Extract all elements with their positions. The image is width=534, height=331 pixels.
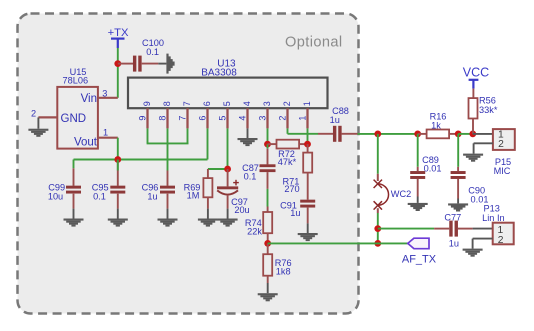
capacitor C95 [92, 160, 126, 209]
resistor R16 1k [418, 112, 459, 139]
svg-text:1u: 1u [290, 208, 300, 218]
resistor R69 1M [184, 169, 213, 209]
ground (U15 pin 2) [28, 117, 48, 136]
ground (C96) [158, 209, 178, 227]
svg-text:2: 2 [278, 116, 288, 121]
P15 pin 1 wire [473, 133, 493, 135]
ground (C90) [448, 199, 468, 212]
junction at C90 [455, 131, 462, 138]
wire [288, 133, 319, 135]
capacitor C88 1u [318, 106, 358, 142]
svg-text:2: 2 [498, 235, 504, 246]
ground (C95) [108, 209, 128, 227]
ground (P13) [463, 249, 483, 257]
P13 pin 2 wire [473, 239, 493, 249]
junction at WC2 bottom [374, 225, 381, 232]
svg-text:6: 6 [198, 116, 208, 121]
connector P15 MIC [493, 129, 515, 176]
wire [267, 128, 269, 144]
svg-text:3: 3 [258, 116, 268, 121]
wire [147, 142, 189, 144]
resistor R56 33k* [469, 89, 498, 134]
svg-text:5: 5 [222, 101, 232, 106]
wire [267, 189, 269, 207]
svg-text:4: 4 [242, 101, 252, 106]
svg-text:AF_TX: AF_TX [402, 254, 437, 266]
op-amp U13 BA3308 [128, 59, 328, 109]
svg-text:9: 9 [142, 101, 152, 106]
ground (C99) [64, 209, 84, 227]
capacitor C87 0.1 [242, 149, 275, 189]
capacitor C96 [142, 171, 175, 209]
svg-text:WC2: WC2 [391, 189, 411, 199]
wire [207, 128, 209, 159]
wire [167, 128, 169, 170]
svg-text:8: 8 [158, 116, 168, 121]
svg-text:VCC: VCC [463, 65, 489, 79]
svg-text:1u: 1u [330, 115, 340, 125]
svg-text:GND: GND [61, 113, 87, 125]
svg-text:33k*: 33k* [479, 105, 498, 115]
U13 pin numbers [138, 101, 312, 120]
svg-text:1: 1 [302, 101, 312, 106]
capacitor C100 [118, 38, 164, 71]
svg-text:7: 7 [178, 116, 188, 121]
Optional label [285, 35, 343, 51]
junction at C89 [414, 131, 421, 138]
svg-text:22k: 22k [247, 227, 262, 237]
svg-text:4: 4 [238, 116, 248, 121]
capacitor C77 1u [434, 212, 473, 248]
wire [267, 144, 269, 149]
wire [208, 168, 228, 170]
svg-text:8: 8 [162, 101, 172, 106]
svg-text:5: 5 [218, 116, 228, 121]
svg-text:BA3308: BA3308 [201, 68, 237, 79]
svg-text:1: 1 [298, 116, 308, 121]
ground (R69) [198, 209, 218, 227]
wire [117, 48, 119, 98]
U15 pin 1 [98, 127, 118, 137]
wire [117, 138, 119, 160]
svg-text:Vout: Vout [74, 137, 98, 149]
ground (C91) [298, 223, 318, 241]
wire [473, 228, 493, 230]
U13 pins 9-1 stubs [148, 108, 308, 128]
wire [187, 128, 189, 143]
junction at R72 right [304, 141, 311, 148]
wire [74, 159, 208, 161]
P15 pin 2 wire [474, 143, 493, 153]
junction at bus [114, 156, 121, 163]
regulator U15 78L06 [57, 67, 98, 149]
svg-text:MIC: MIC [494, 166, 511, 176]
resistor R71 270 [282, 144, 312, 200]
svg-text:1: 1 [103, 127, 108, 137]
ground (C100) [158, 54, 174, 74]
svg-text:1M: 1M [187, 191, 200, 201]
junction at R56 [469, 131, 476, 138]
junction at AF_TX row [374, 240, 381, 247]
power symbol +TX [108, 27, 129, 48]
wire [268, 242, 408, 244]
U15 pin 2 [31, 109, 57, 119]
ground (U13 pin 4) [238, 128, 258, 146]
connector P13 Lin In [482, 204, 514, 246]
svg-text:Optional: Optional [285, 35, 343, 51]
svg-text:0.01: 0.01 [471, 195, 489, 205]
wire [458, 133, 473, 135]
svg-text:7: 7 [182, 101, 192, 106]
optional region box [18, 14, 359, 314]
svg-text:1u: 1u [147, 192, 157, 202]
svg-text:C77: C77 [444, 212, 461, 222]
wire [147, 128, 149, 143]
wire [287, 128, 289, 133]
junction at +TX node [114, 60, 121, 67]
capacitor C91 1u [280, 200, 315, 224]
svg-text:20u: 20u [234, 205, 249, 215]
svg-text:0.01: 0.01 [424, 164, 442, 174]
svg-text:1k8: 1k8 [276, 267, 291, 277]
svg-text:2: 2 [282, 101, 292, 106]
capacitor C89 0.01 [410, 134, 441, 197]
svg-text:Lin In: Lin In [482, 213, 504, 223]
wire [227, 128, 229, 169]
resistor R72 47k* [268, 140, 308, 167]
U15 pin 3 [98, 89, 118, 99]
svg-text:Vin: Vin [81, 93, 97, 105]
wire-connection WC2 [374, 174, 412, 213]
junction at WC2 top [374, 131, 381, 138]
svg-text:6: 6 [202, 101, 212, 106]
wire [73, 160, 75, 169]
svg-text:+TX: +TX [108, 27, 129, 39]
capacitor C97 20u (polarized) [217, 169, 250, 215]
power symbol VCC [463, 65, 489, 88]
svg-text:9: 9 [138, 116, 148, 121]
label AF_TX [402, 238, 437, 265]
wire [358, 133, 418, 135]
svg-text:10u: 10u [48, 192, 63, 202]
svg-text:1k: 1k [431, 121, 441, 131]
junction at pin5 node [224, 166, 231, 173]
wire [377, 213, 379, 244]
wire [307, 128, 309, 144]
svg-text:3: 3 [102, 89, 107, 99]
ground (C97) [218, 209, 238, 227]
svg-text:270: 270 [284, 184, 299, 194]
junction at R74 bottom [264, 240, 271, 247]
resistor R76 1k8 [263, 243, 291, 283]
svg-text:R56: R56 [479, 96, 496, 106]
svg-text:P13: P13 [484, 204, 500, 214]
wire [378, 228, 434, 230]
resistor R74 22k [245, 207, 272, 244]
svg-text:1u: 1u [449, 238, 459, 248]
ground (C89) [408, 197, 428, 212]
capacitor C99 [48, 168, 81, 208]
svg-text:0.1: 0.1 [93, 192, 106, 202]
svg-text:3: 3 [262, 101, 272, 106]
svg-text:47k*: 47k* [278, 157, 297, 167]
junction at R72 left [264, 141, 271, 148]
ground (R76) [258, 283, 278, 301]
ground (P15) [463, 154, 483, 162]
wire [377, 134, 379, 174]
svg-text:78L06: 78L06 [63, 76, 89, 86]
svg-text:2: 2 [498, 139, 504, 150]
wire [117, 160, 119, 171]
svg-text:0.1: 0.1 [244, 172, 257, 182]
svg-text:0.1: 0.1 [146, 47, 159, 57]
capacitor C90 0.01 [451, 134, 489, 205]
svg-text:2: 2 [31, 109, 36, 119]
